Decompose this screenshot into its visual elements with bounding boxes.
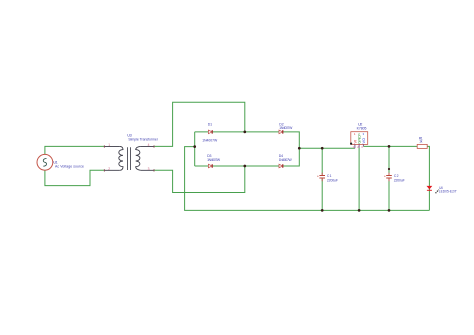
svg-text:1N4007W: 1N4007W (279, 158, 293, 162)
svg-text:C1: C1 (327, 174, 332, 178)
diode D2 (279, 122, 293, 133)
diode D3 (207, 154, 221, 168)
pin end ticks (104, 145, 154, 171)
wire from AC source top to transformer pin 1 (45, 146, 104, 154)
svg-text:LED05-E2/T: LED05-E2/T (439, 190, 457, 194)
junction node left bridge (DC-) (193, 145, 196, 148)
wire transformer pin 3 to bridge bottom node (154, 166, 245, 193)
wire diode row 1 (D1 anode to D2 cathode, corner down to DC+) (195, 132, 300, 148)
svg-text:3: 3 (361, 145, 363, 149)
wire regulator GND down to bottom rail (358, 148, 360, 211)
svg-text:D1: D1 (208, 122, 212, 126)
junction node top row (243, 131, 246, 134)
junction node C2 wire mid (388, 168, 390, 170)
svg-text:Ac Voltage source: Ac Voltage source (55, 165, 84, 169)
svg-text:+: + (317, 175, 319, 179)
junction node C1 top (321, 147, 324, 150)
svg-text:1N4007W: 1N4007W (279, 126, 293, 130)
pin stubs (355, 144, 364, 148)
svg-text:2200uF: 2200uF (327, 179, 338, 183)
LED U4 (427, 186, 457, 194)
svg-text:K7805: K7805 (357, 127, 367, 131)
right winding (136, 146, 141, 170)
junction node DC plus (298, 147, 301, 150)
transformer U3 (104, 133, 158, 171)
diode D4 (279, 154, 293, 168)
dark corner dot (350, 143, 352, 145)
svg-text:1k: 1k (419, 140, 422, 144)
wire diode row 2 (D3 to D4, corner up to DC+) (195, 148, 300, 166)
resistor R1 (417, 137, 427, 149)
wire R1 right down through LED to bottom rail (427, 146, 429, 210)
svg-text:1N4007W: 1N4007W (202, 139, 218, 143)
svg-text:C2: C2 (394, 174, 399, 178)
svg-text:3: 3 (148, 167, 150, 171)
pins (104, 146, 154, 170)
svg-text:1: 1 (108, 143, 110, 147)
wire regulator VO to R1 (363, 145, 417, 147)
svg-text:4: 4 (148, 143, 150, 147)
core (128, 147, 131, 170)
junction node GND bottom (358, 209, 361, 212)
left winding (119, 146, 123, 170)
svg-text:2: 2 (108, 167, 110, 171)
capacitor C1 (317, 173, 338, 183)
junction node C1 bottom (321, 209, 324, 212)
wire transformer pin 4 to bridge top node (154, 102, 245, 146)
svg-text:2200uF: 2200uF (394, 179, 405, 183)
svg-text:VO: VO (361, 138, 366, 144)
wire DC minus: left bridge node and bottom rail (185, 132, 430, 211)
capacitor C2 (384, 173, 405, 183)
svg-text:+: + (384, 175, 386, 179)
wire C1 tap vertical (321, 148, 323, 210)
junction node C2 bottom (388, 209, 391, 212)
AC voltage source U1 (37, 154, 84, 170)
svg-text:1N4007W: 1N4007W (207, 158, 221, 162)
wire from AC source bottom to transformer pin 2 (45, 170, 104, 185)
svg-text:Simple Transformer: Simple Transformer (128, 137, 158, 141)
diode D1 (202, 122, 218, 142)
junction node bottom row (243, 165, 246, 168)
wire DC plus rail to regulator VI (299, 147, 355, 149)
junction node C2 top (388, 145, 391, 148)
wire C2 tap vertical (388, 146, 390, 210)
voltage regulator U2 K7805 (350, 122, 368, 149)
